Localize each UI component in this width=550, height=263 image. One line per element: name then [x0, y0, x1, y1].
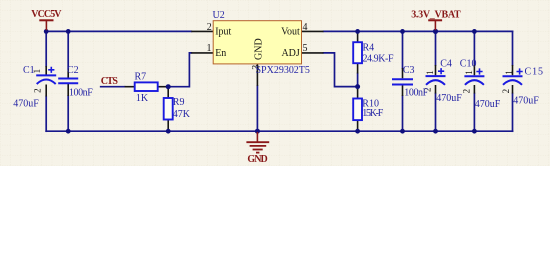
svg-text:470uF: 470uF [475, 99, 501, 110]
svg-text:Iput: Iput [215, 26, 231, 37]
svg-text:5: 5 [303, 43, 308, 54]
svg-text:100nF: 100nF [404, 87, 428, 98]
svg-text:470uF: 470uF [513, 95, 539, 106]
svg-text:VCC5V: VCC5V [31, 9, 62, 20]
svg-text:1K: 1K [136, 93, 149, 104]
svg-text:ADJ: ADJ [281, 48, 299, 59]
svg-text:U2: U2 [213, 10, 225, 21]
svg-text:4: 4 [303, 22, 308, 33]
svg-text:1: 1 [504, 70, 514, 75]
svg-text:470uF: 470uF [13, 99, 39, 110]
svg-text:C1: C1 [23, 65, 35, 76]
svg-text:2: 2 [207, 22, 212, 33]
svg-text:47K: 47K [173, 109, 191, 120]
svg-text:C2: C2 [67, 65, 79, 76]
svg-text:1: 1 [464, 70, 474, 75]
svg-text:2: 2 [501, 89, 511, 94]
svg-text:2: 2 [32, 88, 42, 93]
svg-text:SPX29302T5: SPX29302T5 [256, 65, 310, 76]
svg-text:C3: C3 [403, 65, 415, 76]
svg-text:En: En [215, 48, 226, 59]
svg-text:C10: C10 [460, 59, 477, 70]
svg-text:GND: GND [254, 38, 265, 60]
svg-text:R9: R9 [173, 97, 185, 108]
svg-text:GND: GND [247, 154, 267, 165]
svg-text:1: 1 [425, 70, 435, 75]
svg-text:15K-F: 15K-F [362, 108, 383, 119]
svg-text:Vout: Vout [281, 26, 300, 37]
svg-text:24.9K-F: 24.9K-F [363, 54, 394, 65]
svg-text:R4: R4 [363, 43, 375, 54]
svg-text:R7: R7 [135, 72, 147, 83]
svg-text:C15: C15 [525, 67, 544, 78]
svg-text:CTS: CTS [101, 76, 119, 87]
svg-text:1: 1 [207, 43, 212, 54]
svg-text:470uF: 470uF [436, 93, 462, 104]
svg-text:100nF: 100nF [69, 87, 93, 98]
svg-text:2: 2 [461, 89, 471, 94]
svg-text:C4: C4 [440, 59, 452, 70]
svg-text:3.3V_VBAT: 3.3V_VBAT [411, 9, 461, 20]
